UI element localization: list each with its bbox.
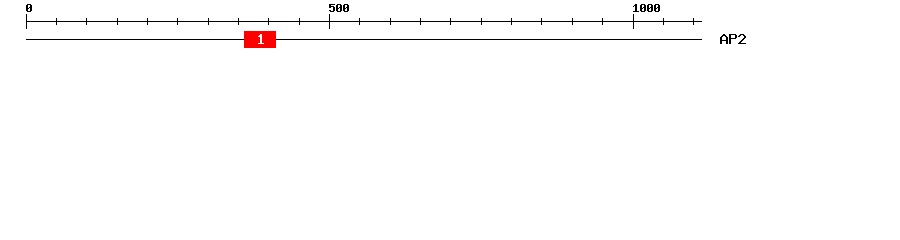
minor tick 150 bbox=[117, 18, 118, 25]
ruler axis line bbox=[26, 21, 702, 22]
minor tick 650 bbox=[420, 18, 421, 25]
major tick 0 bbox=[26, 14, 27, 29]
minor tick 950 bbox=[602, 18, 603, 25]
minor tick 550 bbox=[359, 18, 360, 25]
minor tick 300 bbox=[208, 18, 209, 25]
minor tick 450 bbox=[299, 18, 300, 25]
minor tick 400 bbox=[268, 18, 269, 25]
minor tick 250 bbox=[177, 18, 178, 25]
minor tick 700 bbox=[450, 18, 451, 25]
sequence line bbox=[26, 39, 702, 40]
minor tick 100 bbox=[86, 18, 87, 25]
ruler label 1000 bbox=[633, 4, 660, 12]
minor tick 600 bbox=[390, 18, 391, 25]
major tick 1000 bbox=[633, 14, 634, 29]
minor tick 50 bbox=[56, 18, 57, 25]
major tick 500 bbox=[329, 14, 330, 29]
ruler label 500 bbox=[329, 4, 349, 12]
ruler label 0 bbox=[26, 4, 32, 12]
minor tick 1100 bbox=[693, 18, 694, 25]
minor tick 800 bbox=[511, 18, 512, 25]
motif box 1 bbox=[244, 31, 276, 48]
minor tick 350 bbox=[238, 18, 239, 25]
sequence name AP2 bbox=[720, 34, 746, 44]
motif number 1 bbox=[258, 34, 264, 44]
minor tick 900 bbox=[572, 18, 573, 25]
minor tick 750 bbox=[481, 18, 482, 25]
background bbox=[0, 0, 900, 58]
minor tick 1050 bbox=[663, 18, 664, 25]
minor tick 200 bbox=[147, 18, 148, 25]
minor tick 850 bbox=[541, 18, 542, 25]
